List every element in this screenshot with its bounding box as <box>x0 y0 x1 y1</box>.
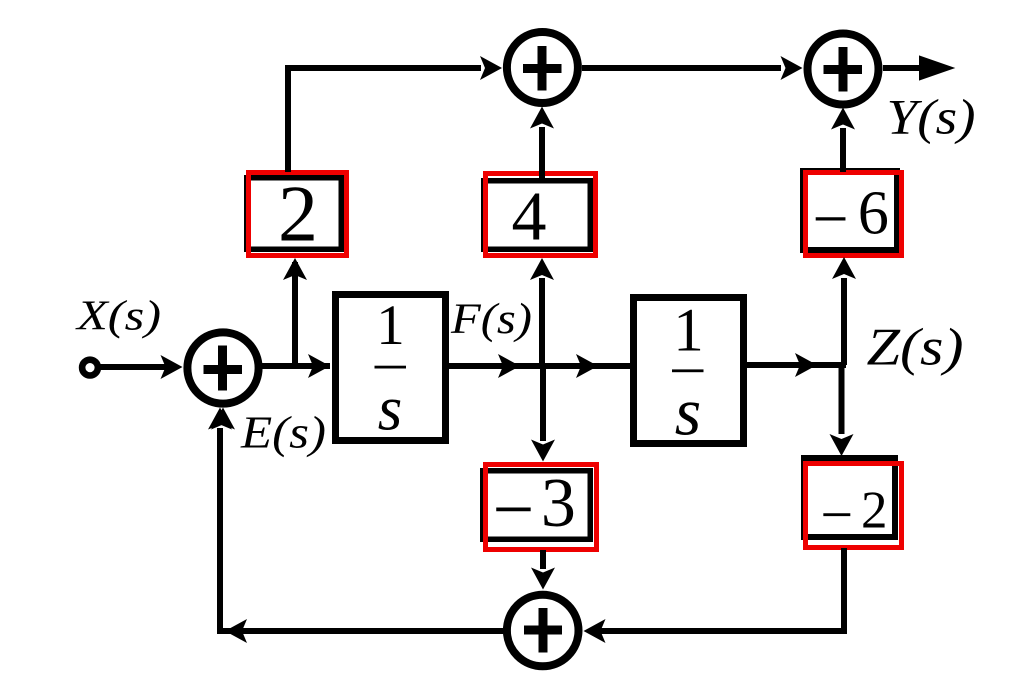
svg-text:1: 1 <box>376 294 405 357</box>
svg-text:6: 6 <box>858 179 889 247</box>
svg-text:X(s): X(s) <box>75 293 161 339</box>
svg-text:4: 4 <box>512 179 547 256</box>
svg-text:F(s): F(s) <box>450 296 532 343</box>
svg-text:s: s <box>378 374 403 444</box>
svg-text:2: 2 <box>278 171 318 259</box>
svg-text:−: − <box>820 482 853 547</box>
svg-text:s: s <box>675 374 701 450</box>
svg-text:1: 1 <box>673 298 704 365</box>
svg-text:Z(s): Z(s) <box>867 318 964 376</box>
svg-text:E(s): E(s) <box>240 408 326 458</box>
svg-text:Y(s): Y(s) <box>887 89 976 145</box>
svg-text:−: − <box>493 469 535 551</box>
svg-text:3: 3 <box>541 465 576 542</box>
svg-text:2: 2 <box>861 482 888 540</box>
svg-text:−: − <box>812 183 848 254</box>
